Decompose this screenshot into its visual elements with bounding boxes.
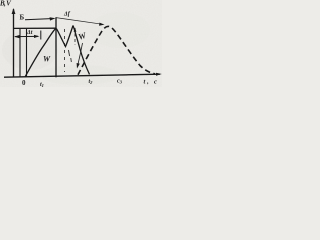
y-axis arrowhead (12, 8, 16, 14)
annotation arrow to peak (25, 19, 51, 20)
dashed bell curve (78, 26, 155, 74)
dashed vertical at valley (64, 29, 66, 72)
inner vertical 1 (19, 29, 21, 77)
dashed vertical marker with up arrow (74, 28, 76, 45)
stray scan marks (69, 50, 72, 62)
second hump right flank (73, 26, 90, 75)
solid hump left flank (25, 28, 56, 77)
tick t1 (40, 31, 42, 40)
inner vertical 2 (26, 29, 28, 77)
valley between humps (56, 26, 73, 47)
x-axis (4, 74, 160, 77)
paper background (0, 0, 162, 87)
arrow from W2 down (78, 43, 83, 65)
x-axis arrowhead (156, 73, 162, 76)
thin line to dashed apex (56, 18, 102, 25)
rectangle top (14, 27, 57, 29)
rectangle right edge (55, 17, 57, 77)
y-axis (13, 9, 15, 77)
label W2 (77, 30, 89, 42)
dimension arrow delta-t (15, 35, 38, 37)
